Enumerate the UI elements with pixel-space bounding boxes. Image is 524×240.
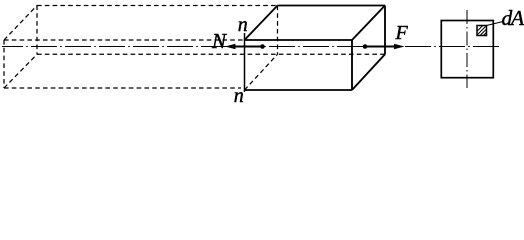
svg-text:n: n bbox=[234, 85, 244, 103]
svg-text:dA: dA bbox=[502, 6, 524, 30]
solid box back-top edge bbox=[278, 5, 386, 7]
solid box cut-face top-left diagonal edge bbox=[245, 6, 278, 41]
removed left part of bar (dashed box) front-top edge bbox=[4, 39, 245, 41]
cross-section view: square outline bbox=[441, 21, 493, 78]
hidden back-bottom edge (dashed, runs under both halves) bbox=[37, 53, 385, 55]
solid box top-right diagonal edge bbox=[352, 6, 385, 41]
solid box back-right vertical edge bbox=[384, 6, 386, 55]
dA hatching bbox=[477, 26, 482, 31]
svg-text:F: F bbox=[395, 22, 409, 44]
dashed box top-left diagonal edge bbox=[4, 6, 37, 41]
centerline (bar axis, dash-dot) bbox=[2, 46, 502, 48]
dashed box back-left vertical edge bbox=[36, 6, 38, 55]
leader line to dA label bbox=[487, 22, 504, 26]
dashed box bottom-left diagonal edge bbox=[4, 54, 37, 88]
dashed box front-bottom edge bbox=[4, 87, 241, 89]
external force F arrow (points right) bbox=[365, 46, 396, 48]
dashed box back-top edge bbox=[37, 5, 278, 7]
section line n-n (cut plane trace) bbox=[244, 33, 246, 92]
dashed box front-left vertical edge bbox=[3, 40, 5, 88]
solid box hidden bottom-left diagonal edge bbox=[245, 54, 278, 90]
solid right part: front-top edge bbox=[245, 39, 353, 41]
cross-section vertical centerline bbox=[466, 10, 468, 88]
internal force N arrow (points left) bbox=[233, 46, 263, 48]
solid box front-bottom edge bbox=[245, 89, 353, 91]
solid box front-right vertical edge bbox=[351, 40, 353, 90]
application dot on right end face centroid bbox=[363, 44, 368, 49]
svg-text:N: N bbox=[211, 29, 227, 53]
solid box bottom-right diagonal edge bbox=[352, 54, 385, 90]
application dot on cut face centroid bbox=[260, 44, 265, 49]
area element dA (hatched small square) bbox=[477, 26, 487, 36]
svg-text:n: n bbox=[238, 14, 248, 36]
solid box hidden back-left vertical edge bbox=[277, 6, 279, 55]
